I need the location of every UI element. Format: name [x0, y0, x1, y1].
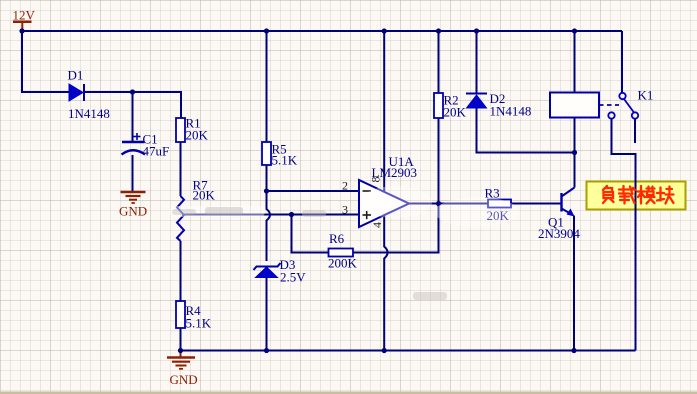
- junction dot rail pin8 column: [382, 28, 387, 33]
- char fu: [603, 186, 614, 203]
- wire relay node down to Q1 collector: [574, 153, 576, 188]
- junction dot output node: [436, 201, 441, 206]
- op-amp U1A LM2903: [342, 154, 417, 228]
- svg-text:R6: R6: [329, 231, 345, 246]
- wire rail to switch common: [621, 31, 623, 93]
- junction dot relay bottom node: [572, 150, 577, 155]
- bottom photo edge: [0, 392, 697, 394]
- resistor R7 (zigzag): [177, 178, 216, 242]
- wire R6 right to output node: [353, 204, 439, 253]
- svg-text:20K: 20K: [186, 128, 209, 143]
- wire op-amp pin 8 power drop: [383, 31, 385, 192]
- svg-text:3: 3: [342, 203, 348, 217]
- svg-text:47uF: 47uF: [143, 144, 170, 159]
- junction dot rail R5 column: [264, 28, 269, 33]
- wire R2 drop from rail: [438, 31, 440, 93]
- wire D2 anode to relay node: [477, 108, 575, 153]
- wire D3 anode to ground rail: [266, 278, 268, 351]
- junction dot pin3 node: [289, 212, 294, 217]
- watermark ghost text middle: [302, 210, 447, 300]
- wire R5 bottom to pin2 node: [266, 165, 268, 191]
- svg-text:1N4148: 1N4148: [490, 104, 532, 119]
- wire D1 cathode to R1 top: [84, 92, 181, 118]
- svg-text:D1: D1: [68, 68, 84, 83]
- wire R4 bottom to ground rail: [180, 328, 182, 351]
- diode D2: [466, 91, 531, 119]
- power port 12V: [13, 8, 36, 32]
- char kuai: [657, 187, 674, 204]
- char zai: [619, 186, 635, 204]
- svg-text:12V: 12V: [13, 8, 36, 23]
- svg-text:GND: GND: [170, 372, 198, 387]
- resistor R3: [485, 186, 512, 224]
- wire relay coil top drop from rail: [574, 31, 576, 93]
- junction dot rail R2 column: [436, 28, 441, 33]
- watermark ghost text left: [170, 206, 265, 217]
- zener diode D3: [254, 257, 307, 285]
- wire R1 bottom to R7 top: [180, 142, 182, 196]
- transistor Q1: [538, 188, 580, 242]
- wire R3 right to Q1 base: [511, 203, 562, 205]
- svg-text:5.1K: 5.1K: [272, 153, 298, 168]
- svg-text:2.5V: 2.5V: [280, 270, 306, 285]
- junction dot pin2 node: [264, 188, 269, 193]
- junction dot ground rail D3: [264, 348, 269, 353]
- svg-text:K1: K1: [638, 88, 654, 103]
- resistor R1: [176, 116, 209, 143]
- ground GND under R4: [167, 351, 198, 388]
- char mo: [638, 186, 655, 204]
- wire R7 wiper to op-amp pin 3: [182, 214, 359, 216]
- wire pin2 node down to D3 with hop over pin3 wire: [267, 191, 271, 261]
- svg-text:8: 8: [369, 177, 383, 183]
- svg-text:GND: GND: [119, 204, 147, 219]
- wire D2 cathode drop from rail: [476, 31, 478, 94]
- wire pin3 node down to R6 left: [292, 215, 329, 253]
- wire left drop from 12V rail: [22, 31, 69, 92]
- relay coil K1: [550, 88, 653, 118]
- junction dot ground rail R4: [178, 348, 183, 353]
- ground GND under C1: [119, 192, 147, 219]
- resistor R5: [262, 142, 298, 168]
- resistor R6: [328, 231, 358, 271]
- resistor R4: [176, 301, 212, 331]
- svg-text:2: 2: [342, 179, 348, 193]
- junction dot C1 top: [130, 89, 135, 94]
- svg-text:20K: 20K: [193, 188, 216, 203]
- junction dot rail D2 column: [474, 28, 479, 33]
- svg-text:5.1K: 5.1K: [186, 316, 212, 331]
- wire C1 bottom lead to ground: [132, 155, 134, 191]
- svg-text:2N3904: 2N3904: [538, 226, 580, 241]
- svg-text:4: 4: [370, 222, 384, 228]
- relay switch contacts K1: [608, 93, 638, 119]
- diode D1: [68, 68, 110, 122]
- wire Q1 emitter to ground rail: [573, 216, 575, 351]
- wire op-amp pin 4 to ground rail with hop over R6 wire: [384, 216, 387, 351]
- wire top rail 12V: [22, 30, 622, 32]
- resistor R2: [434, 93, 467, 120]
- watermark smudge over op-amp: [360, 186, 432, 218]
- wire op-amp output to Q1 base: [409, 203, 488, 205]
- wire switch NC contact stub: [634, 119, 636, 144]
- load module label (Chinese characters drawn as strokes): [603, 186, 674, 204]
- junction dot ground rail pin4: [382, 348, 387, 353]
- junction dot 12V rail left: [19, 28, 24, 33]
- wire R7 bottom to R4 top: [180, 241, 182, 301]
- svg-text:1N4148: 1N4148: [68, 106, 110, 121]
- wire C1 top lead: [132, 92, 134, 141]
- wire R2 bottom to output node: [438, 118, 440, 204]
- capacitor C1: [122, 132, 170, 159]
- junction dot ground rail emitter: [571, 348, 576, 353]
- wire pin2 node to op-amp pin 2: [267, 190, 360, 192]
- svg-text:200K: 200K: [328, 256, 358, 271]
- load module box: [587, 182, 686, 210]
- svg-text:20K: 20K: [444, 105, 467, 120]
- wire relay coil bottom to node: [574, 118, 576, 153]
- junction dot rail relay column: [572, 28, 577, 33]
- wire R5 top drop from rail: [266, 31, 268, 142]
- wire switch contact to load module: [612, 119, 636, 351]
- watermark smudge right of op-amp: [435, 197, 519, 227]
- wire bottom ground rail: [181, 350, 636, 352]
